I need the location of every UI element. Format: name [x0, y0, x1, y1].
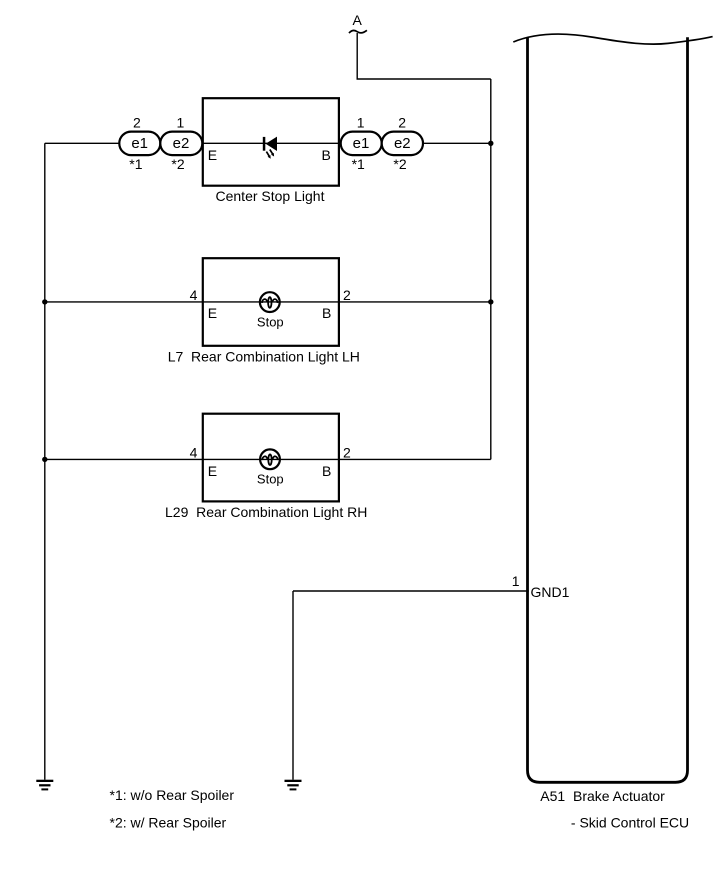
svg-text:GND1: GND1: [531, 584, 570, 600]
svg-text:B: B: [321, 147, 330, 163]
svg-text:e1: e1: [353, 135, 370, 152]
svg-text:4: 4: [190, 287, 198, 303]
svg-text:*1: *1: [352, 156, 365, 172]
svg-text:Center Stop Light: Center Stop Light: [216, 188, 325, 204]
svg-text:E: E: [208, 305, 217, 321]
svg-text:1: 1: [357, 115, 365, 131]
svg-text:e2: e2: [173, 135, 190, 152]
svg-text:L29 Rear Combination Light RH: L29 Rear Combination Light RH: [165, 504, 367, 520]
svg-text:A: A: [353, 12, 363, 28]
svg-text:L7 Rear Combination Light LH: L7 Rear Combination Light LH: [168, 348, 360, 364]
svg-text:Stop: Stop: [257, 315, 284, 330]
svg-text:A51 Brake Actuator: A51 Brake Actuator: [540, 788, 665, 804]
svg-text:*1: *1: [129, 156, 142, 172]
svg-text:2: 2: [398, 115, 406, 131]
svg-text:*2: w/ Rear Spoiler: *2: w/ Rear Spoiler: [110, 814, 227, 830]
svg-text:E: E: [208, 147, 217, 163]
svg-text:*2: *2: [171, 156, 184, 172]
svg-text:2: 2: [133, 115, 141, 131]
svg-text:Stop: Stop: [257, 472, 284, 487]
svg-text:e2: e2: [394, 135, 411, 152]
svg-text:1: 1: [177, 115, 185, 131]
svg-text:- Skid Control ECU: - Skid Control ECU: [571, 815, 689, 831]
svg-text:*1: w/o Rear Spoiler: *1: w/o Rear Spoiler: [110, 787, 235, 803]
svg-text:1: 1: [512, 573, 520, 589]
svg-text:E: E: [208, 463, 217, 479]
svg-text:4: 4: [190, 444, 198, 460]
svg-text:2: 2: [343, 287, 351, 303]
svg-text:*2: *2: [393, 156, 406, 172]
svg-text:e1: e1: [131, 135, 148, 152]
svg-text:B: B: [322, 463, 331, 479]
svg-text:B: B: [322, 305, 331, 321]
svg-text:2: 2: [343, 444, 351, 460]
